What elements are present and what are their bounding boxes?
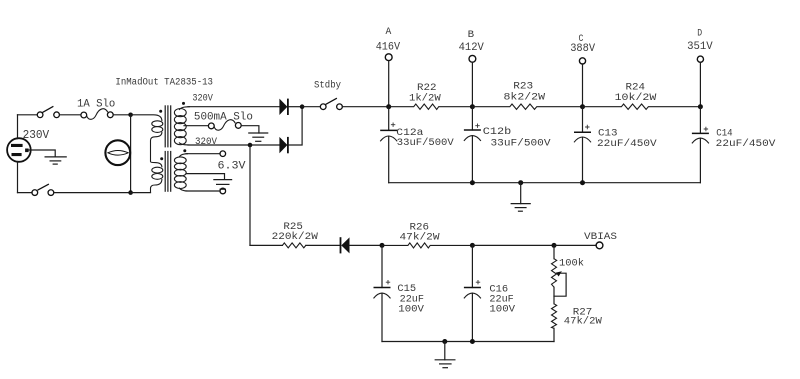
- node C15 top: [380, 243, 385, 248]
- fuse F2 500mA Slo: [208, 120, 241, 131]
- wire top mains left: [18, 114, 38, 116]
- svg-text:InMadOut TA2835-13: InMadOut TA2835-13: [115, 77, 213, 89]
- wire R25 to D3: [306, 244, 340, 246]
- capacitor C14: [692, 107, 709, 183]
- switch S1 (top mains): [37, 106, 59, 117]
- wire node to VBIAS: [554, 244, 596, 246]
- node D: [698, 104, 703, 109]
- node junction bottom: [128, 190, 133, 195]
- node A: [386, 104, 391, 109]
- node C16 top: [470, 243, 475, 248]
- wire bottom mains left: [18, 192, 33, 194]
- mains plug 230V: [7, 138, 31, 162]
- svg-text:8k2/2W: 8k2/2W: [504, 92, 546, 104]
- svg-text:B: B: [468, 29, 475, 41]
- wire bias bottom bus: [382, 341, 554, 343]
- svg-text:Stdby: Stdby: [314, 80, 341, 92]
- phase dot secondary HT: [182, 102, 185, 105]
- switch Stdby: [320, 98, 342, 109]
- svg-text:100V: 100V: [489, 304, 515, 316]
- terminal 6.3V bottom: [220, 188, 226, 194]
- svg-text:100k: 100k: [559, 258, 584, 270]
- svg-text:1k/2W: 1k/2W: [409, 92, 441, 104]
- diode D2: [279, 137, 288, 153]
- svg-text:D: D: [697, 27, 702, 39]
- wire fuse to ground: [241, 126, 259, 133]
- svg-text:500mA Slo: 500mA Slo: [194, 112, 253, 124]
- svg-text:6.3V: 6.3V: [218, 161, 246, 173]
- svg-text:220k/2W: 220k/2W: [272, 231, 319, 243]
- wire D1 to junction: [289, 106, 302, 108]
- wire stdby to node A: [342, 106, 388, 108]
- node C16 bottom: [470, 339, 475, 344]
- svg-text:33uF/500V: 33uF/500V: [397, 137, 455, 149]
- wire D2 up to junction: [289, 107, 302, 145]
- transformer core lower: [165, 152, 171, 192]
- pot wiper: [554, 271, 566, 296]
- wire 6.3V bottom tap: [186, 190, 220, 192]
- wire bottom junction to primary: [131, 192, 151, 194]
- svg-text:22uF/450V: 22uF/450V: [716, 138, 776, 150]
- svg-text:A: A: [386, 26, 393, 38]
- node C: [580, 104, 585, 109]
- svg-text:351V: 351V: [687, 41, 713, 53]
- wire 6.3V top tap: [186, 153, 220, 155]
- wire plug top vertical: [17, 115, 19, 139]
- wire fuse to junction: [113, 114, 130, 116]
- node junction top (lamp/primary): [128, 113, 133, 118]
- node C13 bottom: [580, 180, 585, 185]
- terminal VBIAS: [596, 242, 603, 249]
- node C12b bottom: [470, 180, 475, 185]
- svg-text:47k/2W: 47k/2W: [564, 316, 603, 328]
- wire HT bottom bus: [389, 182, 701, 184]
- svg-text:10k/2W: 10k/2W: [615, 92, 657, 104]
- node bias takeoff: [248, 143, 253, 148]
- node bias ground: [442, 339, 447, 344]
- node B: [470, 104, 475, 109]
- ground (6.3V centre tap): [214, 180, 232, 190]
- svg-text:C12b: C12b: [483, 126, 512, 138]
- svg-text:412V: 412V: [459, 42, 485, 54]
- wire bias drop vertical: [249, 145, 251, 245]
- wire plug bottom vertical: [17, 162, 19, 193]
- svg-text:320V: 320V: [195, 137, 217, 148]
- ground (HT bus): [511, 183, 530, 212]
- fuse F1 1A Slo: [81, 109, 113, 120]
- wire plug earth to ground: [29, 150, 56, 157]
- wire bias to R25: [250, 244, 282, 246]
- capacitor C12b: [464, 107, 481, 183]
- diode D3: [341, 237, 350, 253]
- switch S2 (bottom mains): [32, 184, 54, 195]
- wire HT bottom tap to D2: [188, 144, 279, 146]
- phase dot primary upper: [159, 110, 162, 113]
- svg-text:1A Slo: 1A Slo: [77, 98, 115, 110]
- capacitor C13: [574, 107, 591, 183]
- lamp (indicator): [105, 140, 130, 165]
- wire HT centre tap to fuse: [184, 125, 208, 127]
- transformer primary winding lower: [151, 162, 163, 193]
- diode D1: [279, 99, 288, 115]
- svg-text:388V: 388V: [570, 43, 595, 55]
- transformer core upper: [165, 106, 171, 147]
- phase dot secondary 6.3V: [183, 149, 186, 152]
- wire junction down (lamp parallel): [130, 115, 132, 193]
- phase dot primary lower: [160, 157, 163, 160]
- svg-text:22uF/450V: 22uF/450V: [597, 138, 657, 150]
- wire to pot node: [472, 244, 554, 246]
- transformer secondary HT winding: [174, 107, 190, 145]
- svg-text:47k/2W: 47k/2W: [400, 232, 441, 244]
- svg-text:416V: 416V: [376, 41, 401, 53]
- svg-text:230V: 230V: [23, 129, 50, 142]
- ground (HT centre tap): [249, 133, 268, 141]
- wire bottom mains to junction: [54, 192, 131, 194]
- terminal 6.3V top: [220, 151, 226, 157]
- svg-text:VBIAS: VBIAS: [584, 232, 617, 243]
- transformer secondary 6.3V winding: [174, 154, 188, 191]
- transformer primary winding upper: [131, 115, 163, 162]
- wire junction to stdby switch: [302, 106, 320, 108]
- capacitor C12a: [380, 107, 397, 183]
- node diode junction: [300, 104, 305, 109]
- wire HT top tap to D1: [188, 106, 279, 108]
- capacitor C16: [464, 245, 481, 341]
- wire 6.3V centre tap: [186, 174, 225, 180]
- wire switch to fuse: [60, 114, 81, 116]
- svg-text:320V: 320V: [192, 94, 213, 105]
- wire D3 to node: [350, 244, 383, 246]
- node ground tap: [518, 180, 523, 185]
- svg-text:33uF/500V: 33uF/500V: [491, 137, 552, 149]
- svg-text:100V: 100V: [398, 304, 424, 316]
- capacitor C15: [374, 245, 391, 341]
- node pot top: [552, 243, 557, 248]
- ground (plug earth): [45, 157, 66, 164]
- ground (bias bus): [435, 342, 455, 368]
